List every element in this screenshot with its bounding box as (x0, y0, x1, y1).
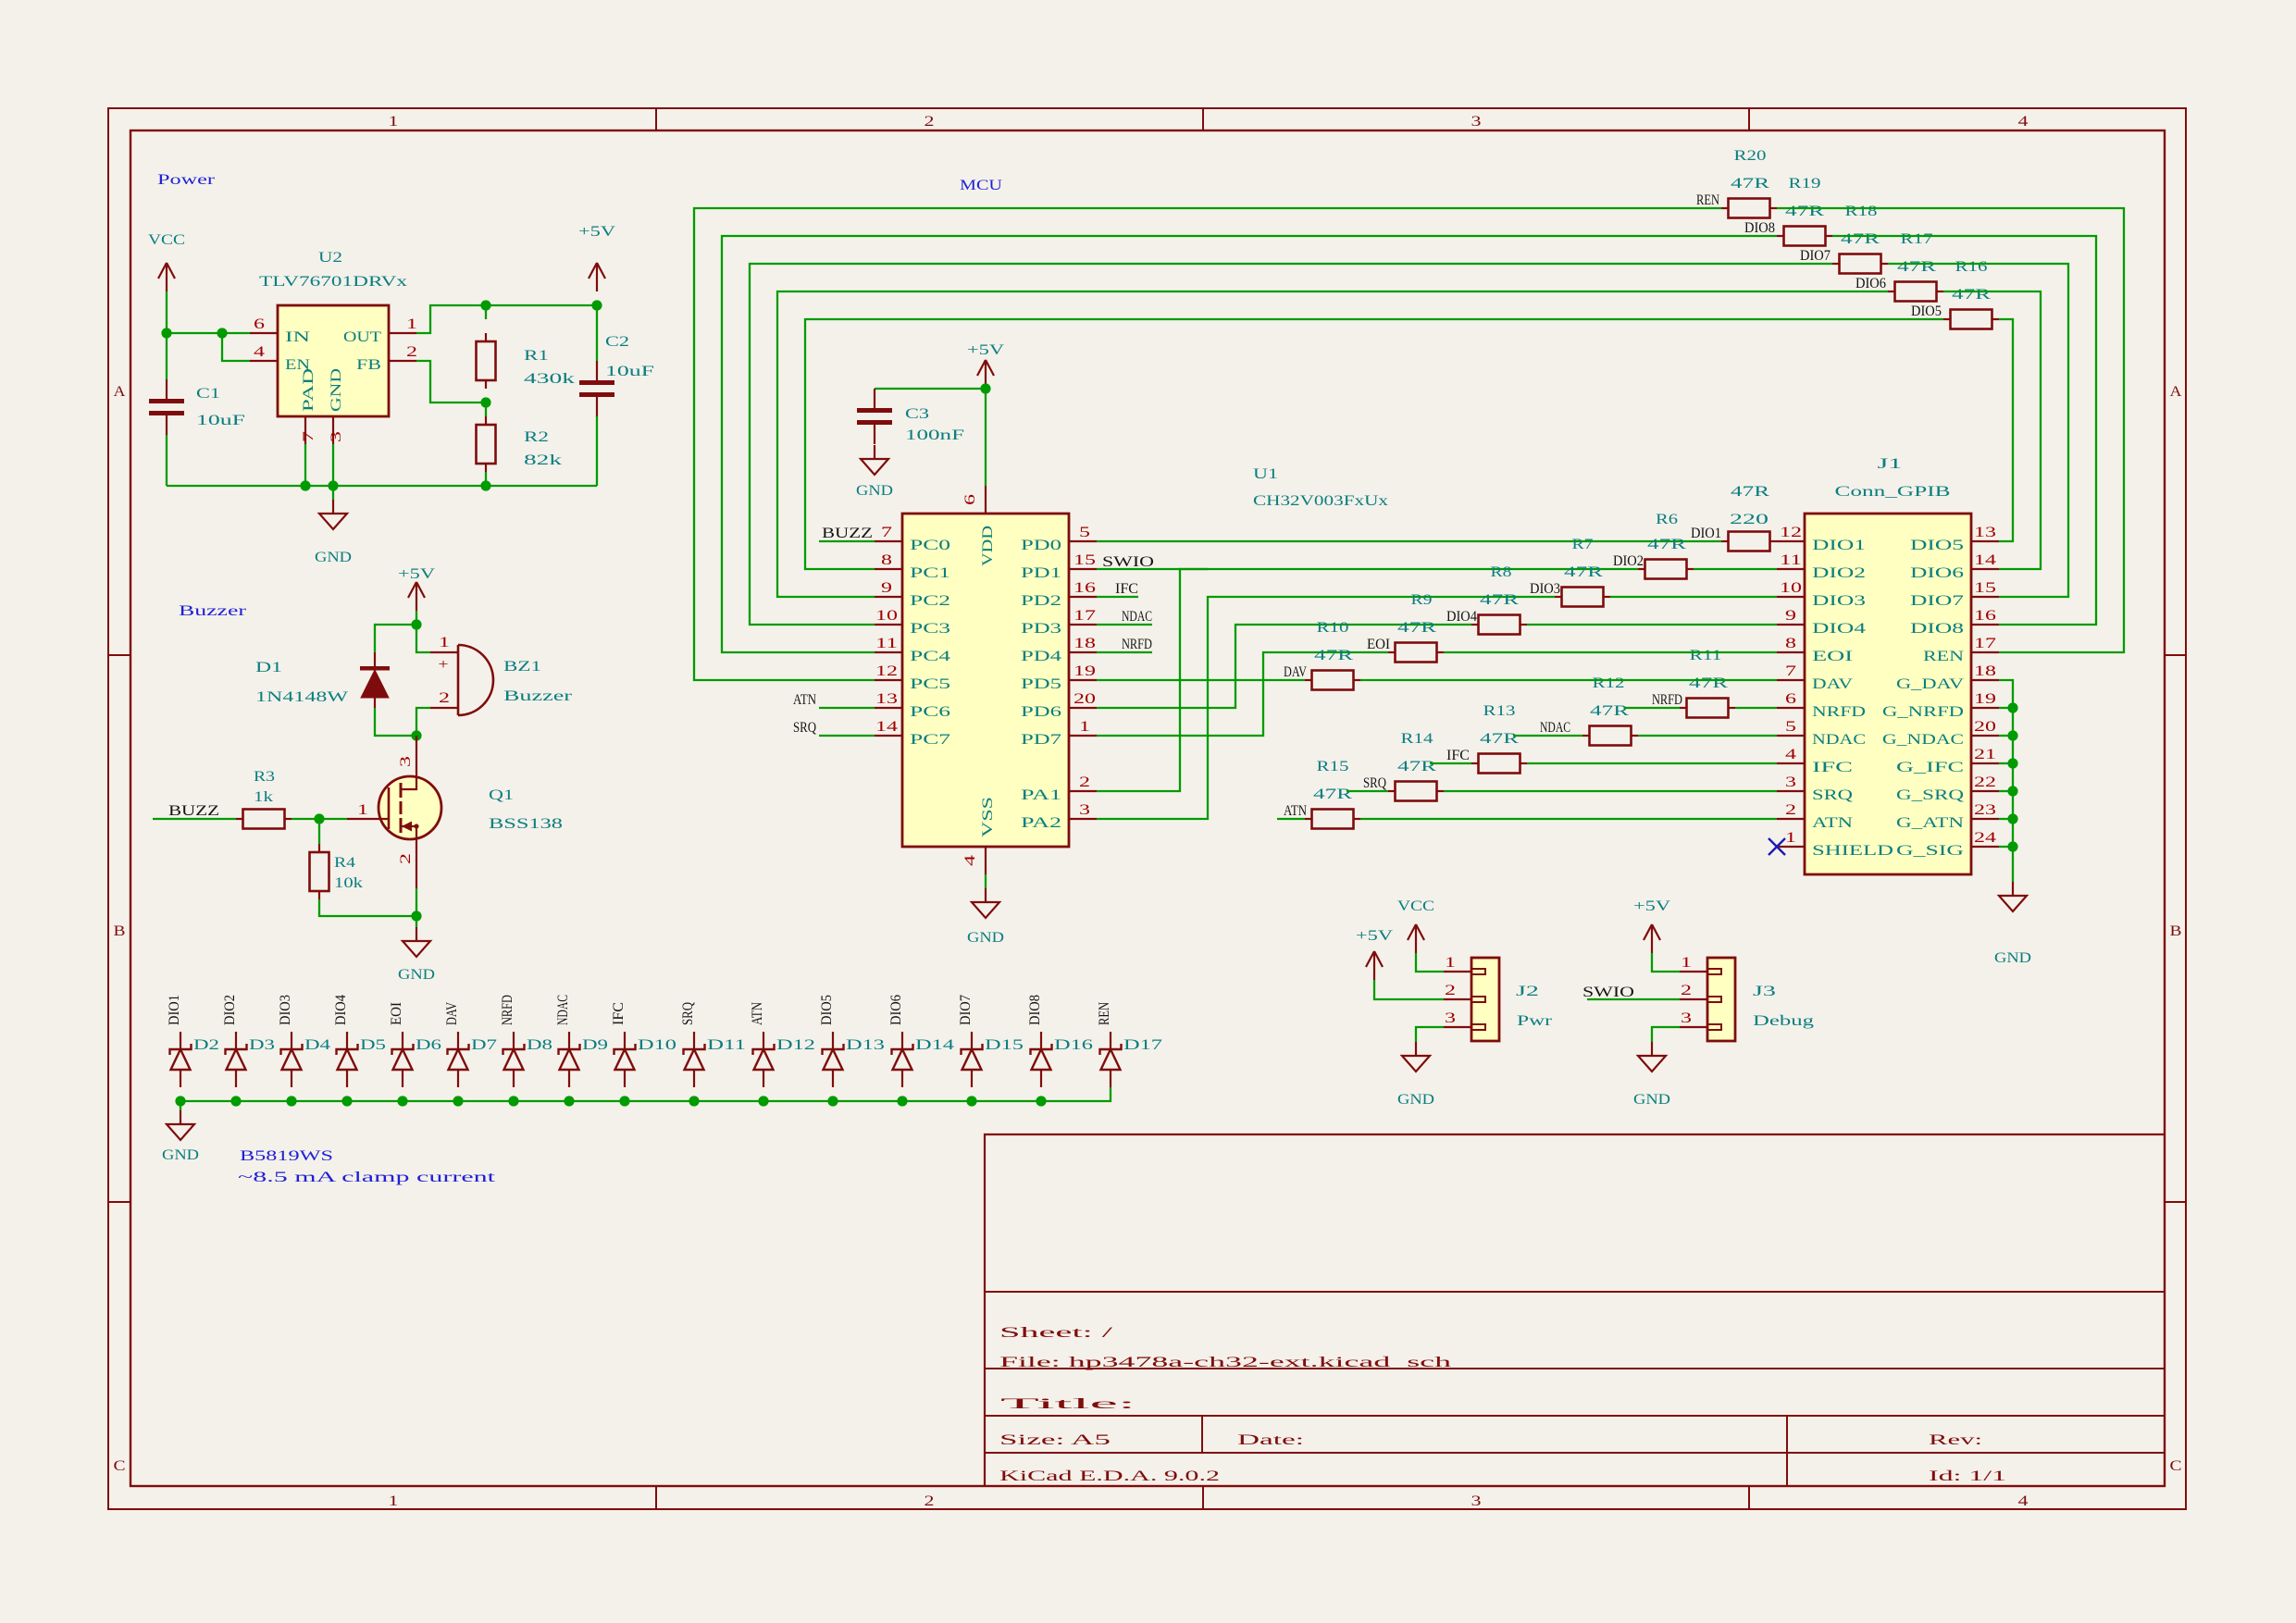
diode D13 (823, 1032, 886, 1087)
power flag +5V mcu (967, 342, 1005, 389)
capacitor C2 (579, 334, 654, 416)
svg-text:VCC: VCC (1397, 898, 1434, 914)
svg-text:47R: 47R (1314, 648, 1354, 663)
svg-text:47R: 47R (1785, 204, 1825, 219)
svg-text:1: 1 (1785, 830, 1796, 846)
diode D10 (614, 1032, 677, 1087)
svg-text:DIO1: DIO1 (1691, 526, 1721, 541)
svg-text:1: 1 (439, 635, 450, 650)
resistor R9 (1471, 615, 1527, 635)
border frame inner (130, 130, 2165, 1486)
svg-text:DAV: DAV (1812, 676, 1854, 692)
svg-text:BUZZ: BUZZ (822, 526, 873, 541)
resistor R5 (1305, 810, 1360, 829)
svg-text:11: 11 (875, 636, 898, 651)
svg-text:PD2: PD2 (1021, 593, 1061, 609)
wire DIO4 to J1 pin9 (1527, 624, 1777, 626)
svg-text:Rev:: Rev: (1929, 1432, 1982, 1448)
svg-text:47R: 47R (1897, 259, 1937, 275)
junction diode bus (619, 1096, 629, 1106)
wire U2 GND to rail (332, 444, 334, 486)
svg-text:OUT: OUT (343, 329, 381, 345)
svg-text:DIO5: DIO5 (1911, 304, 1942, 319)
svg-text:REN: REN (1923, 649, 1965, 664)
svg-text:4: 4 (2018, 1493, 2029, 1509)
regulator U2 (250, 250, 417, 444)
svg-text:DIO6: DIO6 (888, 995, 904, 1025)
svg-text:47R: 47R (1647, 537, 1687, 552)
svg-text:2: 2 (1079, 774, 1090, 790)
svg-text:23: 23 (1974, 802, 1996, 818)
svg-text:18: 18 (1974, 663, 1996, 679)
svg-text:10: 10 (1780, 580, 1802, 596)
svg-text:1N4148W: 1N4148W (255, 689, 349, 705)
wire R2 to rail (485, 472, 487, 486)
junction G bus 915 (2007, 841, 2017, 851)
svg-text:DIO2: DIO2 (1613, 553, 1644, 569)
svg-text:GND: GND (967, 930, 1004, 946)
wire PD4 stub (1097, 651, 1152, 653)
wire PA2 to DIO3 row (1097, 597, 1555, 819)
junction VCC node (161, 328, 171, 338)
wire PD0 DIO1 (1097, 540, 1721, 542)
diode D14 (892, 1032, 955, 1087)
wire J2 pin3 to gnd (1416, 1027, 1444, 1042)
svg-text:3: 3 (1681, 1010, 1692, 1026)
svg-text:D3: D3 (249, 1037, 275, 1053)
svg-text:PC5: PC5 (910, 676, 950, 692)
resistor R16 (1943, 310, 1999, 329)
junction diode bus (397, 1096, 407, 1106)
svg-text:47R: 47R (1952, 287, 1992, 303)
svg-text:DIO8: DIO8 (1027, 995, 1043, 1025)
wire G_DAV down (1999, 680, 2013, 882)
svg-text:R8: R8 (1491, 564, 1512, 580)
svg-text:+5V: +5V (578, 224, 616, 240)
svg-text:9: 9 (881, 580, 892, 596)
wire gate to R4 (318, 819, 320, 844)
resistor R19 (1777, 227, 1832, 246)
wire bus to gnd (180, 1101, 181, 1110)
resistor R13 (1582, 726, 1638, 746)
resistor R10 (1388, 643, 1444, 663)
svg-text:NRFD: NRFD (1652, 692, 1682, 708)
svg-text:3: 3 (1445, 1010, 1456, 1026)
svg-text:GND: GND (1994, 950, 2031, 966)
svg-text:File: hp3478a-ch32-ext.kicad_s: File: hp3478a-ch32-ext.kicad_sch (999, 1355, 1451, 1370)
junction G bus 795 (2007, 730, 2017, 740)
mcu U1 (875, 466, 1388, 874)
svg-text:C2: C2 (605, 334, 629, 350)
svg-text:NDAC: NDAC (1122, 609, 1152, 625)
capacitor C1 (149, 379, 245, 435)
svg-text:BZ1: BZ1 (503, 659, 541, 675)
svg-text:PD5: PD5 (1021, 676, 1061, 692)
svg-text:C: C (2170, 1458, 2182, 1474)
junction diode bus (286, 1096, 296, 1106)
svg-text:DIO3: DIO3 (278, 995, 293, 1025)
svg-text:19: 19 (1974, 691, 1996, 707)
frame column ticks (108, 108, 2186, 1509)
junction GND rail (328, 480, 338, 490)
frame column labels (389, 114, 2029, 1509)
svg-text:1: 1 (357, 802, 368, 818)
junction diode bus (230, 1096, 241, 1106)
no-connect SHIELD (1769, 838, 1785, 855)
svg-text:Sheet: /: Sheet: / (999, 1325, 1113, 1341)
svg-text:Conn_GPIB: Conn_GPIB (1835, 484, 1951, 500)
svg-text:Pwr: Pwr (1517, 1013, 1553, 1029)
junction R2 rail (480, 480, 490, 490)
svg-text:PC6: PC6 (910, 704, 950, 720)
svg-text:SWIO: SWIO (1582, 985, 1634, 1000)
svg-text:PA2: PA2 (1021, 815, 1061, 831)
svg-text:D5: D5 (360, 1037, 386, 1053)
junction G bus 825 (2007, 758, 2017, 768)
svg-text:47R: 47R (1689, 675, 1729, 691)
svg-text:EOI: EOI (1367, 637, 1390, 652)
wire R3 to gate (292, 818, 347, 820)
svg-text:3: 3 (1079, 802, 1090, 818)
svg-text:47R: 47R (1841, 231, 1880, 247)
connector J2 (1444, 955, 1553, 1041)
svg-text:21: 21 (1974, 747, 1996, 762)
wire PC7 stub (819, 735, 875, 737)
junction source gnd (411, 911, 421, 921)
wire EOI to J1 pin8 (1444, 651, 1777, 653)
diode D2 (170, 1032, 220, 1087)
svg-text:10uF: 10uF (605, 364, 654, 379)
wire NRFD label stub (1624, 707, 1680, 709)
svg-text:2: 2 (406, 344, 417, 360)
diode D16 (1031, 1032, 1094, 1087)
svg-text:6: 6 (1785, 691, 1796, 707)
svg-text:B: B (2170, 923, 2182, 939)
svg-text:PC7: PC7 (910, 732, 950, 748)
wire gnd stub Q1 (416, 916, 417, 927)
svg-text:EOI: EOI (389, 1002, 404, 1025)
svg-text:PC1: PC1 (910, 565, 950, 581)
wire G pin stub 855 (1999, 790, 2013, 792)
svg-text:20: 20 (1974, 719, 1996, 735)
svg-text:VSS: VSS (980, 797, 996, 837)
svg-text:SHIELD: SHIELD (1812, 843, 1893, 859)
wire PD5 DAV row (1097, 679, 1305, 681)
svg-text:BSS138: BSS138 (489, 816, 563, 832)
power flag +5V J3 (1633, 898, 1671, 953)
wire PC2 to DIO6 row (777, 291, 1888, 597)
wire G pin stub 825 (1999, 762, 2013, 764)
svg-text:SRQ: SRQ (680, 1002, 696, 1025)
svg-text:IFC: IFC (611, 1002, 627, 1025)
svg-text:IN: IN (285, 329, 311, 345)
svg-text:15: 15 (1974, 580, 1996, 596)
svg-text:R6: R6 (1656, 512, 1678, 527)
svg-text:D6: D6 (416, 1037, 441, 1053)
junction buzzer bottom (411, 730, 421, 740)
svg-text:ATN: ATN (1812, 815, 1854, 831)
junction diode bus (508, 1096, 518, 1106)
svg-text:+5V: +5V (1633, 898, 1671, 914)
svg-text:G_SIG: G_SIG (1896, 843, 1965, 859)
svg-text:8: 8 (881, 552, 892, 568)
svg-text:REN: REN (1696, 192, 1719, 208)
svg-text:DIO1: DIO1 (167, 995, 182, 1025)
ground J3 (1633, 1042, 1670, 1108)
svg-text:G_NRFD: G_NRFD (1882, 704, 1964, 720)
svg-text:47R: 47R (1480, 731, 1520, 747)
wire PC0 BUZZ (819, 540, 875, 542)
svg-text:D15: D15 (985, 1037, 1024, 1053)
svg-text:D2: D2 (193, 1037, 219, 1053)
svg-text:R15: R15 (1317, 759, 1349, 774)
wire source to gnd junction (416, 888, 417, 916)
svg-text:PD0: PD0 (1021, 538, 1061, 553)
svg-text:ATN: ATN (1284, 803, 1307, 819)
svg-text:U2: U2 (318, 250, 342, 266)
svg-text:J1: J1 (1878, 456, 1903, 472)
svg-text:R19: R19 (1789, 176, 1821, 192)
wire top to D1 (375, 625, 416, 652)
svg-text:R11: R11 (1690, 648, 1722, 663)
wire DIO2 to J1 pin11 (1694, 568, 1777, 570)
svg-text:GND: GND (856, 483, 893, 499)
junction diode bus (827, 1096, 838, 1106)
junction EN tap (217, 328, 227, 338)
diode D1 (255, 652, 390, 708)
wire SRQ to J1 pin3 (1444, 790, 1777, 792)
svg-text:IFC: IFC (1812, 760, 1853, 775)
diode D4 (281, 1032, 331, 1087)
svg-text:4: 4 (1785, 747, 1796, 762)
svg-text:9: 9 (1785, 608, 1796, 624)
junction diode bus (341, 1096, 352, 1106)
junction PAD rail (300, 480, 310, 490)
wire NDAC to J1 pin5 (1638, 735, 1777, 737)
svg-text:GND: GND (315, 550, 352, 565)
svg-text:2: 2 (398, 853, 414, 864)
wire DIO5 to J1 pin13 (1999, 319, 2013, 541)
junction +5V node (591, 300, 602, 310)
svg-text:7: 7 (301, 431, 316, 442)
svg-text:1: 1 (389, 114, 399, 130)
wire BUZZ to R3 (153, 818, 236, 820)
resistor R3 (236, 769, 292, 829)
svg-text:R18: R18 (1845, 204, 1878, 219)
svg-text:VDD: VDD (980, 526, 996, 566)
power flag +5V power (578, 224, 616, 291)
svg-text:1k: 1k (254, 789, 273, 805)
svg-text:Id: 1/1: Id: 1/1 (1929, 1468, 2006, 1484)
svg-text:DIO2: DIO2 (222, 995, 238, 1025)
junction R1 top (480, 300, 490, 310)
svg-text:D17: D17 (1123, 1037, 1162, 1053)
wire diode gnd bus (180, 1087, 1111, 1101)
ground J2 (1397, 1042, 1434, 1108)
diode D15 (962, 1032, 1024, 1087)
wire +5V to C2 (596, 305, 598, 361)
svg-text:DIO7: DIO7 (1910, 593, 1964, 609)
svg-text:PC4: PC4 (910, 649, 950, 664)
svg-text:20: 20 (1074, 691, 1096, 707)
svg-text:D7: D7 (471, 1037, 497, 1053)
svg-text:R13: R13 (1483, 703, 1516, 719)
resistor R14 (1471, 754, 1527, 774)
svg-text:NRFD: NRFD (1122, 637, 1152, 652)
svg-text:SRQ: SRQ (1812, 787, 1854, 803)
capacitor C3 (857, 389, 964, 444)
svg-text:4: 4 (2018, 114, 2029, 130)
resistor R1 (477, 333, 576, 389)
svg-text:DAV: DAV (1284, 664, 1307, 680)
ground diode array (162, 1110, 199, 1163)
wire G pin stub 915 (1999, 846, 2013, 848)
svg-text:DIO7: DIO7 (958, 995, 974, 1025)
wire PD2 stub (1097, 596, 1138, 598)
svg-text:MCU: MCU (960, 178, 1003, 193)
wire U2 OUT to +5V node (416, 305, 597, 333)
svg-text:EOI: EOI (1812, 649, 1853, 664)
svg-text:DAV: DAV (444, 1002, 460, 1025)
junction gate node (314, 813, 324, 824)
svg-text:VCC: VCC (148, 232, 185, 248)
svg-text:11: 11 (1780, 552, 1802, 568)
svg-text:12: 12 (1780, 525, 1802, 540)
svg-text:6: 6 (962, 494, 978, 505)
resistor R15 (1388, 782, 1444, 801)
svg-text:DIO8: DIO8 (1744, 220, 1775, 236)
svg-text:D9: D9 (582, 1037, 608, 1053)
junction diode bus (1036, 1096, 1046, 1106)
svg-text:DIO6: DIO6 (1910, 565, 1964, 581)
svg-text:C1: C1 (196, 386, 220, 402)
svg-text:100nF: 100nF (905, 427, 964, 443)
svg-text:NRFD: NRFD (1812, 704, 1866, 720)
svg-text:KiCad E.D.A. 9.0.2: KiCad E.D.A. 9.0.2 (999, 1468, 1220, 1484)
junction G bus 765 (2007, 702, 2017, 712)
svg-text:16: 16 (1974, 608, 1996, 624)
wire ATN label stub (1277, 818, 1305, 820)
svg-text:PAD: PAD (301, 368, 316, 412)
power flag VCC J2 (1397, 898, 1434, 953)
svg-text:Power: Power (157, 172, 216, 188)
ground U2 (315, 500, 352, 565)
svg-text:D10: D10 (638, 1037, 676, 1053)
svg-text:SRQ: SRQ (1363, 775, 1386, 791)
svg-text:Debug: Debug (1753, 1013, 1814, 1029)
svg-text:PC0: PC0 (910, 538, 950, 553)
svg-text:C3: C3 (905, 406, 929, 422)
svg-text:DIO3: DIO3 (1812, 593, 1866, 609)
svg-text:47R: 47R (1397, 620, 1437, 636)
junction diode bus (689, 1096, 699, 1106)
diode D8 (503, 1032, 553, 1087)
svg-text:2: 2 (439, 690, 450, 706)
wire DIO7 to J1 pin15 (1888, 264, 2068, 597)
svg-text:220: 220 (1730, 512, 1769, 527)
svg-text:SWIO: SWIO (1102, 554, 1154, 570)
svg-text:3: 3 (398, 756, 414, 767)
svg-text:GND: GND (162, 1147, 199, 1163)
svg-text:4: 4 (254, 344, 265, 360)
svg-text:PD3: PD3 (1021, 621, 1061, 637)
svg-text:G_NDAC: G_NDAC (1882, 732, 1964, 748)
svg-text:82k: 82k (524, 452, 562, 468)
svg-text:D14: D14 (915, 1037, 954, 1053)
svg-text:D1: D1 (255, 660, 282, 675)
resistor R18 (1832, 254, 1888, 274)
svg-text:3: 3 (1785, 774, 1796, 790)
wire DIO3 to J1 pin10 (1610, 596, 1777, 598)
svg-text:10: 10 (875, 608, 898, 624)
svg-text:14: 14 (875, 719, 898, 735)
junction FB divider (480, 397, 490, 407)
svg-text:24: 24 (1974, 830, 1996, 846)
junction diode bus (175, 1096, 185, 1106)
power flag VCC (148, 232, 185, 291)
wire VCC stub (166, 291, 168, 333)
svg-text:+5V: +5V (1356, 928, 1394, 944)
svg-text:R1: R1 (524, 348, 549, 364)
svg-text:47R: 47R (1564, 564, 1604, 580)
svg-text:G_DAV: G_DAV (1896, 676, 1965, 692)
ground J1 (1994, 882, 2031, 966)
wire G pin stub 885 (1999, 818, 2013, 820)
svg-text:DIO4: DIO4 (1446, 609, 1477, 625)
svg-text:4: 4 (962, 855, 978, 866)
svg-text:DIO8: DIO8 (1910, 621, 1964, 637)
wire +5V to J2 pin2 (1374, 980, 1444, 999)
svg-text:PC2: PC2 (910, 593, 950, 609)
wire G pin stub 795 (1999, 735, 2013, 737)
svg-text:B5819WS: B5819WS (240, 1148, 333, 1164)
svg-text:R7: R7 (1572, 537, 1594, 552)
svg-text:DIO2: DIO2 (1812, 565, 1866, 581)
svg-text:3: 3 (1471, 1493, 1482, 1509)
wire PC6 stub (819, 707, 875, 709)
wire NRFD to J1 pin6 (1735, 707, 1777, 709)
svg-text:2: 2 (1445, 983, 1456, 998)
wire R1 top stub (485, 305, 487, 319)
svg-text:IFC: IFC (1115, 581, 1138, 597)
resistor R7 (1638, 560, 1694, 579)
wire G pin stub 765 (1999, 707, 2013, 709)
wire PD6 to DIO4 row (1097, 625, 1471, 708)
wire NDAC label stub (1513, 735, 1582, 737)
svg-text:Title:: Title: (1000, 1396, 1136, 1412)
svg-text:Size: A5: Size: A5 (999, 1432, 1111, 1448)
resistor R11 (1305, 671, 1360, 690)
junction diode bus (897, 1096, 907, 1106)
wire C3 top (875, 388, 986, 390)
svg-text:8: 8 (1785, 636, 1796, 651)
wire VDD (985, 389, 987, 486)
wire EN connection (222, 333, 250, 361)
diode D7 (448, 1032, 498, 1087)
wire PD1 SWIO (1097, 568, 1208, 570)
wire PC4 to DIO8 row (722, 236, 1777, 652)
junction G bus 855 (2007, 786, 2017, 796)
svg-text:1: 1 (1079, 719, 1090, 735)
svg-text:15: 15 (1074, 552, 1096, 568)
svg-text:DIO5: DIO5 (819, 995, 835, 1025)
junction diode bus (564, 1096, 574, 1106)
svg-text:IFC: IFC (1446, 748, 1470, 763)
svg-text:2: 2 (1681, 983, 1692, 998)
ground U1 (967, 888, 1004, 946)
svg-text:D13: D13 (846, 1037, 885, 1053)
svg-text:SRQ: SRQ (793, 720, 816, 736)
